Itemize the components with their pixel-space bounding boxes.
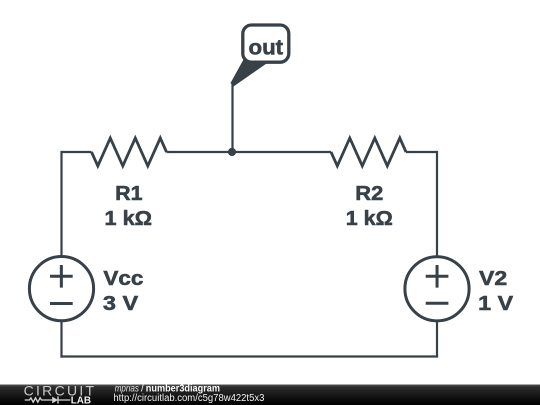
out flag tail: [231, 60, 267, 87]
wire middle horizontal: [167, 151, 332, 153]
Vcc minus sign: [50, 302, 73, 305]
footer bar: [0, 385, 540, 405]
logo resistor-diode glyph: [25, 396, 71, 403]
svg-text:Vcc: Vcc: [103, 267, 143, 290]
wire top-left horizontal: [62, 151, 92, 153]
svg-text:1 V: 1 V: [478, 292, 513, 315]
wire out flag to node: [231, 83, 233, 152]
svg-text:1 kΩ: 1 kΩ: [346, 207, 393, 230]
svg-text:3 V: 3 V: [103, 292, 139, 315]
svg-text:out: out: [249, 36, 284, 60]
wire left vertical lower: [60, 321, 62, 358]
svg-text:V2: V2: [479, 267, 507, 290]
svg-text:R2: R2: [355, 182, 383, 205]
resistor R2: [331, 138, 406, 166]
resistor R1: [92, 138, 167, 166]
wire right vertical upper: [436, 151, 438, 257]
voltage source V2 circle: [405, 257, 469, 321]
V2 minus sign: [426, 302, 449, 305]
wire top-right horizontal: [406, 151, 437, 153]
node junction dot: [228, 148, 236, 156]
out flag box: [243, 25, 289, 62]
V2 plus sign: [426, 265, 449, 288]
svg-text:R1: R1: [115, 182, 142, 205]
wire right vertical lower: [436, 321, 438, 357]
svg-text:1 kΩ: 1 kΩ: [105, 207, 153, 230]
voltage source Vcc circle: [29, 257, 93, 321]
svg-text:LAB: LAB: [71, 396, 91, 405]
Vcc plus sign: [50, 265, 73, 288]
wire left vertical upper: [60, 151, 62, 257]
svg-text:http://circuitlab.com/c5g78w42: http://circuitlab.com/c5g78w422t5x3: [113, 393, 265, 404]
wire bottom horizontal: [60, 355, 438, 357]
